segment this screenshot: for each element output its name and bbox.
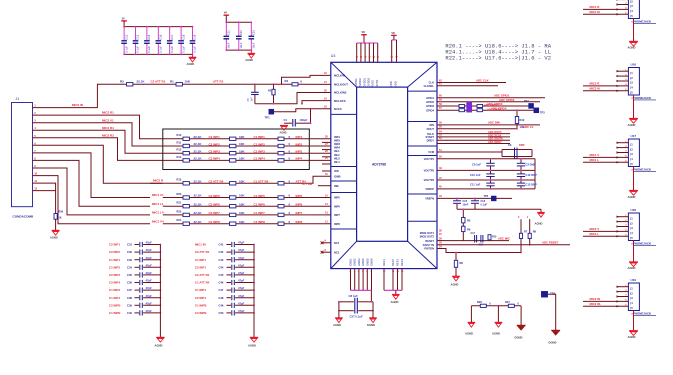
wire jack to AGND <box>633 19 635 42</box>
svg-text:AGND: AGND <box>245 58 253 62</box>
svg-text:C1 INP4: C1 INP4 <box>195 288 206 292</box>
svg-text:VD: VD <box>362 31 366 34</box>
wire to U3 MCLKIN upper elbow <box>281 83 283 85</box>
svg-text:CLKSEL: CLKSEL <box>424 84 435 88</box>
wire ADC GPIO2 <box>437 101 540 103</box>
svg-text:1K: 1K <box>59 217 62 220</box>
svg-text:47pF: 47pF <box>146 271 153 275</box>
wire bar to C8 <box>370 290 372 302</box>
U3 pin section divider left <box>331 192 356 194</box>
svg-text:12: 12 <box>34 187 37 191</box>
U3 pin section divider <box>408 155 437 157</box>
svg-text:AGND: AGND <box>628 335 636 339</box>
capacitor C14 0.1uF <box>146 27 148 41</box>
stub U3 INB <box>318 185 331 187</box>
wire column2 rail <box>253 245 255 338</box>
wire J1.9 to input row 4 <box>33 168 151 215</box>
svg-text:MIC2 M: MIC2 M <box>590 86 601 90</box>
wire U3 top pin <box>396 40 398 62</box>
IC U3 AD73788 outline <box>331 62 437 268</box>
wire J1.4 to attenuator row 3 <box>33 130 163 153</box>
ground DGND TP4 <box>551 330 560 332</box>
svg-text:R7: R7 <box>524 230 528 234</box>
svg-text:ADC PBDET: ADC PBDET <box>542 241 559 245</box>
wire ADC CL <box>437 128 517 130</box>
wire row to U3 <box>309 205 331 207</box>
svg-text:0.1uF: 0.1uF <box>181 46 185 53</box>
wire U3 bottom pin REF <box>392 269 394 291</box>
svg-text:10K: 10K <box>239 179 245 183</box>
wire J1.1 to R2 net (MIC2 IN) <box>33 84 293 107</box>
ground AGND column1 <box>156 337 164 339</box>
svg-text:AGND: AGND <box>628 195 636 199</box>
svg-text:NVCC: NVCC <box>334 107 342 111</box>
svg-text:MIC2 IN: MIC2 IN <box>590 297 601 301</box>
wire VREFN rail <box>437 197 512 199</box>
svg-text:PHONEJACK: PHONEJACK <box>633 20 652 24</box>
svg-text:GND1: GND1 <box>349 258 353 266</box>
resistor R10 mic <box>488 235 491 240</box>
wire row to U3 <box>309 223 331 225</box>
svg-text:MCLKFS: MCLKFS <box>334 99 346 103</box>
resistor R12 10K pullup <box>516 110 518 116</box>
svg-text:TP3: TP3 <box>540 112 545 115</box>
svg-text:C1 INP4: C1 INP4 <box>109 296 120 300</box>
wire VOUTP rail <box>437 158 535 160</box>
svg-text:11: 11 <box>34 179 37 183</box>
U3 pin section divider left <box>331 113 356 115</box>
wire U3 top pin AVDD1 <box>356 43 358 62</box>
resistor 10K <box>230 152 236 155</box>
wire U3 top pin AVSS <box>373 43 375 62</box>
ground AGND right <box>537 212 545 214</box>
ground AGND column2 <box>250 337 258 339</box>
svg-text:C17: C17 <box>471 232 476 235</box>
svg-text:47pF: 47pF <box>238 256 245 260</box>
svg-text:47pF: 47pF <box>238 301 245 305</box>
svg-text:INP7: INP7 <box>334 213 340 217</box>
svg-text:GND6: GND6 <box>370 258 374 266</box>
wire U3 bottom pin REF <box>397 269 399 291</box>
svg-text:AGND: AGND <box>535 222 543 226</box>
capacitor C5 1nF <box>254 83 256 85</box>
wire row to U3 <box>309 145 331 147</box>
resistor R26 0 <box>480 304 486 307</box>
svg-text:C2 INPB: C2 INPB <box>195 311 206 315</box>
svg-text:VDD: VDD <box>389 81 393 87</box>
wire to U3 MCLKFS <box>301 103 303 105</box>
ground AGND jack <box>629 190 638 192</box>
svg-text:MCLKIN2: MCLKIN2 <box>334 91 347 95</box>
svg-text:REF2: REF2 <box>391 259 395 266</box>
resistor R6 <box>462 223 464 226</box>
wire VREFP rail <box>437 188 535 190</box>
resistor R11 22.1K <box>183 144 189 147</box>
resistor 0 <box>278 196 284 199</box>
capacitor C13 DNP <box>520 180 522 183</box>
wire ADC SCLK <box>437 136 510 138</box>
wire row to U3 <box>309 159 331 161</box>
tie bar bottom bundle 2 <box>384 289 402 291</box>
svg-text:R23: R23 <box>177 209 182 213</box>
svg-text:AVSS: AVSS <box>371 80 375 87</box>
phone jack U15 <box>628 0 639 19</box>
U3 pin section divider left <box>331 180 356 182</box>
svg-text:DVDD1: DVDD1 <box>362 77 366 87</box>
svg-text:ADC CL: ADC CL <box>523 125 534 129</box>
svg-text:0.1uF: 0.1uF <box>136 46 140 53</box>
jack pin stub 2 <box>617 291 629 293</box>
svg-text:INR4: INR4 <box>334 146 340 150</box>
power flag VD2 above U3 <box>391 34 397 36</box>
svg-text:R10: R10 <box>177 133 182 137</box>
svg-text:C10 1uF: C10 1uF <box>470 173 481 177</box>
svg-text:VCM: VCM <box>428 150 434 154</box>
svg-text:C47: C47 <box>219 288 224 292</box>
power flag VD above U3 <box>361 34 367 36</box>
svg-text:0.1uF: 0.1uF <box>159 46 163 53</box>
svg-text:ION: ION <box>334 169 339 173</box>
cap bank 1 bus <box>124 26 192 28</box>
svg-text:DVDD2: DVDD2 <box>367 77 371 87</box>
svg-text:MIC2 R1: MIC2 R1 <box>102 111 114 115</box>
svg-text:C40: C40 <box>127 311 132 315</box>
jack pin stub 3 <box>617 80 629 82</box>
resistor R24 22.1K <box>183 222 189 225</box>
capacitor C23 <box>250 22 252 36</box>
resistor gpio filter <box>459 109 465 112</box>
svg-text:R8: R8 <box>460 261 464 265</box>
svg-text:REF4: REF4 <box>400 259 404 266</box>
svg-text:C34: C34 <box>127 265 132 269</box>
svg-text:C1 ATT R4: C1 ATT R4 <box>195 281 210 285</box>
ground AGND bank1 <box>192 54 194 57</box>
svg-text:R21: R21 <box>177 201 182 205</box>
svg-text:INL3: INL3 <box>334 156 340 160</box>
svg-text:AGND: AGND <box>391 300 399 304</box>
svg-text:C1 INP2: C1 INP2 <box>109 265 120 269</box>
svg-text:C12: C12 <box>124 34 128 39</box>
svg-text:C2 INP4: C2 INP4 <box>195 296 206 300</box>
svg-text:100pF: 100pF <box>300 118 308 122</box>
capacitor C8 1uF bottom <box>339 301 354 303</box>
svg-text:C12 DNP: C12 DNP <box>526 173 538 177</box>
svg-text:TP1: TP1 <box>265 116 271 120</box>
svg-text:C33: C33 <box>127 258 132 262</box>
svg-text:10uF: 10uF <box>227 42 231 48</box>
resistor R15 22.1K <box>183 182 189 185</box>
svg-text:PHONEJACK: PHONEJACK <box>633 242 652 246</box>
svg-text:MIC2 IN: MIC2 IN <box>72 103 83 107</box>
svg-text:47pF: 47pF <box>146 279 153 283</box>
svg-text:R9: R9 <box>533 230 537 234</box>
ground AGND tie1 <box>468 322 476 324</box>
wire TP4 to DGND <box>548 294 556 330</box>
svg-text:47pF: 47pF <box>238 271 245 275</box>
svg-text:C1 INPB: C1 INPB <box>195 303 206 307</box>
svg-text:10uF: 10uF <box>239 42 243 48</box>
ground AGND above box <box>280 125 288 127</box>
svg-text:C21: C21 <box>227 30 231 35</box>
capacitor C11 1uF <box>490 180 492 183</box>
wire row to U3 <box>309 152 331 154</box>
svg-text:R1: R1 <box>170 79 174 83</box>
svg-text:DIN: DIN <box>430 123 435 127</box>
resistor R30 <box>54 214 57 220</box>
svg-text:C2 INP4: C2 INP4 <box>109 281 120 285</box>
svg-text:MIC1 V1: MIC1 V1 <box>152 193 164 197</box>
svg-text:AGND: AGND <box>628 123 636 127</box>
resistor R3 vertical <box>273 83 275 85</box>
wire J1.7 to input row 2 <box>33 153 151 198</box>
resistor 0 <box>278 144 284 147</box>
svg-text:C38: C38 <box>127 296 132 300</box>
svg-text:22.1K: 22.1K <box>194 135 203 139</box>
wire MIC2 M <box>583 90 628 92</box>
wire MIC1 L <box>583 161 628 163</box>
wire ADC GPIO4 <box>437 109 534 111</box>
test point TP4 <box>542 292 548 298</box>
svg-text:INL1: INL1 <box>334 149 340 153</box>
capacitor C15 10nF <box>456 198 458 200</box>
U3 pin section divider <box>408 145 437 147</box>
resistor R10 22.1K <box>183 137 189 140</box>
svg-text:0.1uF: 0.1uF <box>147 46 151 53</box>
svg-text:IONB: IONB <box>334 174 341 178</box>
svg-text:AGND: AGND <box>451 283 459 287</box>
capacitor C19 0.1uF <box>192 27 194 41</box>
svg-text:22.1K: 22.1K <box>137 79 146 83</box>
wire MIC2 R <box>583 85 628 87</box>
svg-text:47pF: 47pF <box>238 279 245 283</box>
jack pin stub 1 <box>617 286 629 288</box>
phone jack U16 <box>628 68 639 96</box>
svg-text:MIC1 V: MIC1 V <box>590 153 600 157</box>
svg-text:DGND: DGND <box>515 336 523 340</box>
svg-text:MIC1 L: MIC1 L <box>590 158 600 162</box>
resistor 0 <box>278 182 284 185</box>
svg-text:VD: VD <box>391 32 395 35</box>
svg-text:GND5: GND5 <box>365 258 369 266</box>
svg-text:R22.1-----> U17.6---->|J1.6 -: R22.1-----> U17.6---->|J1.6 - V2 <box>445 55 551 62</box>
ground AGND J1 <box>52 230 60 232</box>
ground AGND bank2 <box>250 50 252 53</box>
jack pin stub 2 <box>617 75 629 77</box>
wire column1 rail <box>159 245 161 338</box>
svg-text:C41: C41 <box>219 243 224 247</box>
svg-text:DRDY: DRDY <box>427 138 435 142</box>
svg-text:47pF: 47pF <box>146 309 153 313</box>
wire ADC SDATA <box>437 139 510 141</box>
svg-text:47pF: 47pF <box>146 301 153 305</box>
wire row to U3 <box>309 214 331 216</box>
svg-text:C45: C45 <box>219 273 224 277</box>
svg-text:TP4: TP4 <box>550 292 556 296</box>
svg-text:C6: C6 <box>508 143 512 147</box>
wire J1.2 to attenuator row 1 <box>33 115 163 139</box>
svg-text:INL4: INL4 <box>334 160 340 164</box>
svg-text:47pF: 47pF <box>238 294 245 298</box>
svg-text:C1 INP1: C1 INP1 <box>109 258 120 262</box>
svg-text:R24: R24 <box>177 218 182 222</box>
svg-text:C32: C32 <box>127 250 132 254</box>
wire jack to AGND <box>633 167 635 191</box>
svg-text:ADC DIN: ADC DIN <box>488 121 500 125</box>
svg-text:22.1K: 22.1K <box>194 179 203 183</box>
svg-text:C35: C35 <box>127 273 132 277</box>
resistor R9 <box>529 219 531 233</box>
U3 pin section divider <box>408 193 437 195</box>
svg-text:R15: R15 <box>177 178 182 182</box>
resistor R14 22.1K <box>183 159 189 162</box>
resistor 10K <box>230 159 236 162</box>
svg-text:C17: C17 <box>170 34 174 39</box>
wire ADC GPIO1 <box>437 97 545 99</box>
svg-text:INB: INB <box>334 184 339 188</box>
svg-text:J1: J1 <box>16 97 20 101</box>
svg-text:C13 DNP: C13 DNP <box>526 182 538 186</box>
svg-text:INL2: INL2 <box>334 153 340 157</box>
resistor R21 22.1K <box>183 205 189 208</box>
svg-text:AVDD2: AVDD2 <box>358 78 362 87</box>
capacitor C16 0.1uF <box>157 27 159 41</box>
resistor R23 22.1K <box>183 213 189 216</box>
svg-text:MIC1 L1: MIC1 L1 <box>152 202 164 206</box>
svg-text:R10: R10 <box>492 236 497 239</box>
svg-text:MICB OUT1: MICB OUT1 <box>420 231 435 235</box>
resistor 0 <box>278 213 284 216</box>
resistor 0 <box>278 152 284 155</box>
wire MCLK line to C1 <box>310 108 312 110</box>
svg-text:AGND: AGND <box>333 323 341 327</box>
svg-text:VREFP: VREFP <box>425 187 434 191</box>
jack pin stub 1 <box>617 216 629 218</box>
capacitor C16 0.1uF <box>474 198 476 200</box>
svg-text:C37: C37 <box>127 288 132 292</box>
svg-text:VOUTP2: VOUTP2 <box>424 169 435 173</box>
wire MIC2 RL <box>583 305 628 307</box>
jack pin stub 3 <box>617 296 629 298</box>
wire MIC2 L <box>583 235 628 237</box>
test point TP1 <box>269 109 274 114</box>
svg-text:0.1uF: 0.1uF <box>124 46 128 53</box>
svg-text:47pF: 47pF <box>146 263 153 267</box>
U3 pin section divider <box>408 90 437 92</box>
svg-text:GPIO1: GPIO1 <box>426 96 434 100</box>
svg-text:C48: C48 <box>219 296 224 300</box>
svg-text:TP5: TP5 <box>484 195 489 198</box>
tie bar bottom bundle 1 <box>351 289 372 291</box>
svg-text:VDD: VDD <box>394 81 398 87</box>
capacitor C21 <box>225 22 227 36</box>
jack pin stub 2 <box>617 0 629 1</box>
svg-text:47pF: 47pF <box>238 248 245 252</box>
wire row A to U3 ION <box>309 176 331 183</box>
svg-text:C2 ATT R1: C2 ATT R1 <box>195 250 210 254</box>
svg-text:47pF: 47pF <box>146 294 153 298</box>
wire U3 top pin DVSS <box>377 43 379 62</box>
svg-text:GPIO2: GPIO2 <box>426 100 434 104</box>
wire ladder right tie <box>534 159 536 189</box>
cap bank 2 bus <box>226 21 251 23</box>
svg-text:10K: 10K <box>239 135 245 139</box>
wire U3 bottom pin REF <box>383 269 385 291</box>
ground AGND bundle2 <box>392 294 400 296</box>
U3 pin section divider left <box>331 166 356 168</box>
capacitor C1 100pF <box>284 122 292 124</box>
stub U3 IONB <box>322 170 331 172</box>
svg-text:VA: VA <box>224 12 227 15</box>
svg-text:C1 INPB: C1 INPB <box>109 311 120 315</box>
capacitor C18 <box>480 235 482 243</box>
resistor 10K <box>230 222 236 225</box>
svg-text:GND3: GND3 <box>357 258 361 266</box>
svg-text:R27: R27 <box>505 300 510 304</box>
wire J1.5 to attenuator row 4 <box>33 138 163 161</box>
wire VOUTN rail <box>437 169 535 171</box>
wire ADC DOUT <box>437 133 510 135</box>
capacitor C27 0.1uF <box>339 310 354 312</box>
svg-text:C2 INP1: C2 INP1 <box>109 243 120 247</box>
capacitor C10 1uF <box>490 170 492 173</box>
svg-text:C2 INP2: C2 INP2 <box>109 250 120 254</box>
power flag VA bank2 <box>224 14 230 16</box>
svg-text:U19: U19 <box>631 278 637 282</box>
svg-text:MIC2 R: MIC2 R <box>590 81 601 85</box>
jack pin stub 3 <box>617 152 629 154</box>
svg-text:MIC2 R: MIC2 R <box>153 179 164 183</box>
svg-text:TP2: TP2 <box>524 100 529 103</box>
svg-text:MIC2 RL: MIC2 RL <box>590 302 602 306</box>
wire ADC CLKSEL <box>437 85 498 87</box>
svg-text:47pF: 47pF <box>238 241 245 245</box>
svg-text:10nF: 10nF <box>463 203 469 206</box>
svg-text:VOUTP1: VOUTP1 <box>424 157 435 161</box>
svg-text:ADC GPIO3: ADC GPIO3 <box>484 103 499 107</box>
resistor gpio filter2 <box>477 109 483 112</box>
jack pin stub 2 <box>617 221 629 223</box>
ground DGND tie <box>517 325 526 327</box>
svg-text:C16: C16 <box>159 34 163 39</box>
svg-text:0.1uF: 0.1uF <box>193 46 197 53</box>
svg-text:C2 INPB: C2 INPB <box>109 303 120 307</box>
svg-text:R5: R5 <box>467 219 471 223</box>
resistor 10K <box>230 137 236 140</box>
svg-text:MIC1 V4: MIC1 V4 <box>152 219 164 223</box>
wire U3 bottom pin AGND1 <box>350 269 352 291</box>
svg-text:AGND: AGND <box>187 62 195 66</box>
wire MIC1 M <box>583 13 628 15</box>
wire MIC1 V <box>583 156 628 158</box>
wire U3 bottom pin DGND1 <box>358 269 360 291</box>
svg-text:ADC DRDY: ADC DRDY <box>488 140 502 144</box>
wire row to U3 <box>309 138 331 140</box>
svg-text:C39: C39 <box>127 303 132 307</box>
svg-text:R13: R13 <box>177 148 182 152</box>
capacitor C17 0.1uF <box>169 27 171 41</box>
svg-text:REF1: REF1 <box>382 259 386 266</box>
svg-text:0.1uF: 0.1uF <box>481 203 488 206</box>
wire jack to AGND <box>633 95 635 119</box>
resistor 10K <box>230 144 236 147</box>
svg-text:PHONEJACK: PHONEJACK <box>633 312 652 316</box>
svg-text:GPIO3: GPIO3 <box>426 104 434 108</box>
wire U3 bottom pin DGND2 <box>362 269 364 291</box>
stub U3 extra input <box>322 149 331 151</box>
svg-text:C49: C49 <box>219 303 224 307</box>
wire VOUTF rail <box>437 179 535 181</box>
svg-text:47pF: 47pF <box>238 263 245 267</box>
